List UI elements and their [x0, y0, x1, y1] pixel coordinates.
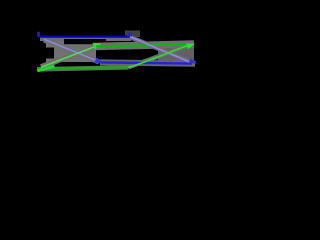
blue start smudge — [37, 32, 40, 37]
halo band green bottom line — [37, 67, 128, 69]
blue bottom line — [101, 62, 192, 63]
black notch left of crossing — [44, 48, 54, 59]
green middle line — [96, 44, 186, 46]
halo band blue S diagonal — [131, 38, 195, 64]
blue top line — [38, 35, 130, 37]
green swap arrow shaft — [41, 47, 94, 67]
green bottom line — [37, 67, 128, 69]
halo patch at second crossing — [158, 46, 194, 62]
halo dark patch above blue bend — [125, 31, 140, 38]
halo band green swap arrow — [41, 46, 97, 68]
halo patch at first crossing — [46, 41, 96, 62]
green swap arrowhead — [93, 43, 102, 50]
halo band green middle line — [95, 44, 194, 47]
green S diagonal — [128, 45, 189, 67]
blue bend smudge — [127, 33, 132, 37]
halo band blue bottom line — [100, 62, 195, 63]
black notch above crossing — [64, 39, 106, 44]
halo band green S diagonal — [128, 44, 192, 67]
blue swap arrow shaft — [44, 39, 96, 60]
blue S diagonal — [130, 37, 190, 62]
halo below blue top line — [40, 38, 131, 42]
green S diagonal arrowhead — [186, 44, 195, 50]
halo band blue swap arrow — [44, 40, 99, 62]
blue swap arrowhead — [94, 57, 103, 63]
blue S diagonal arrowhead — [189, 58, 197, 63]
green start blob — [37, 65, 55, 73]
